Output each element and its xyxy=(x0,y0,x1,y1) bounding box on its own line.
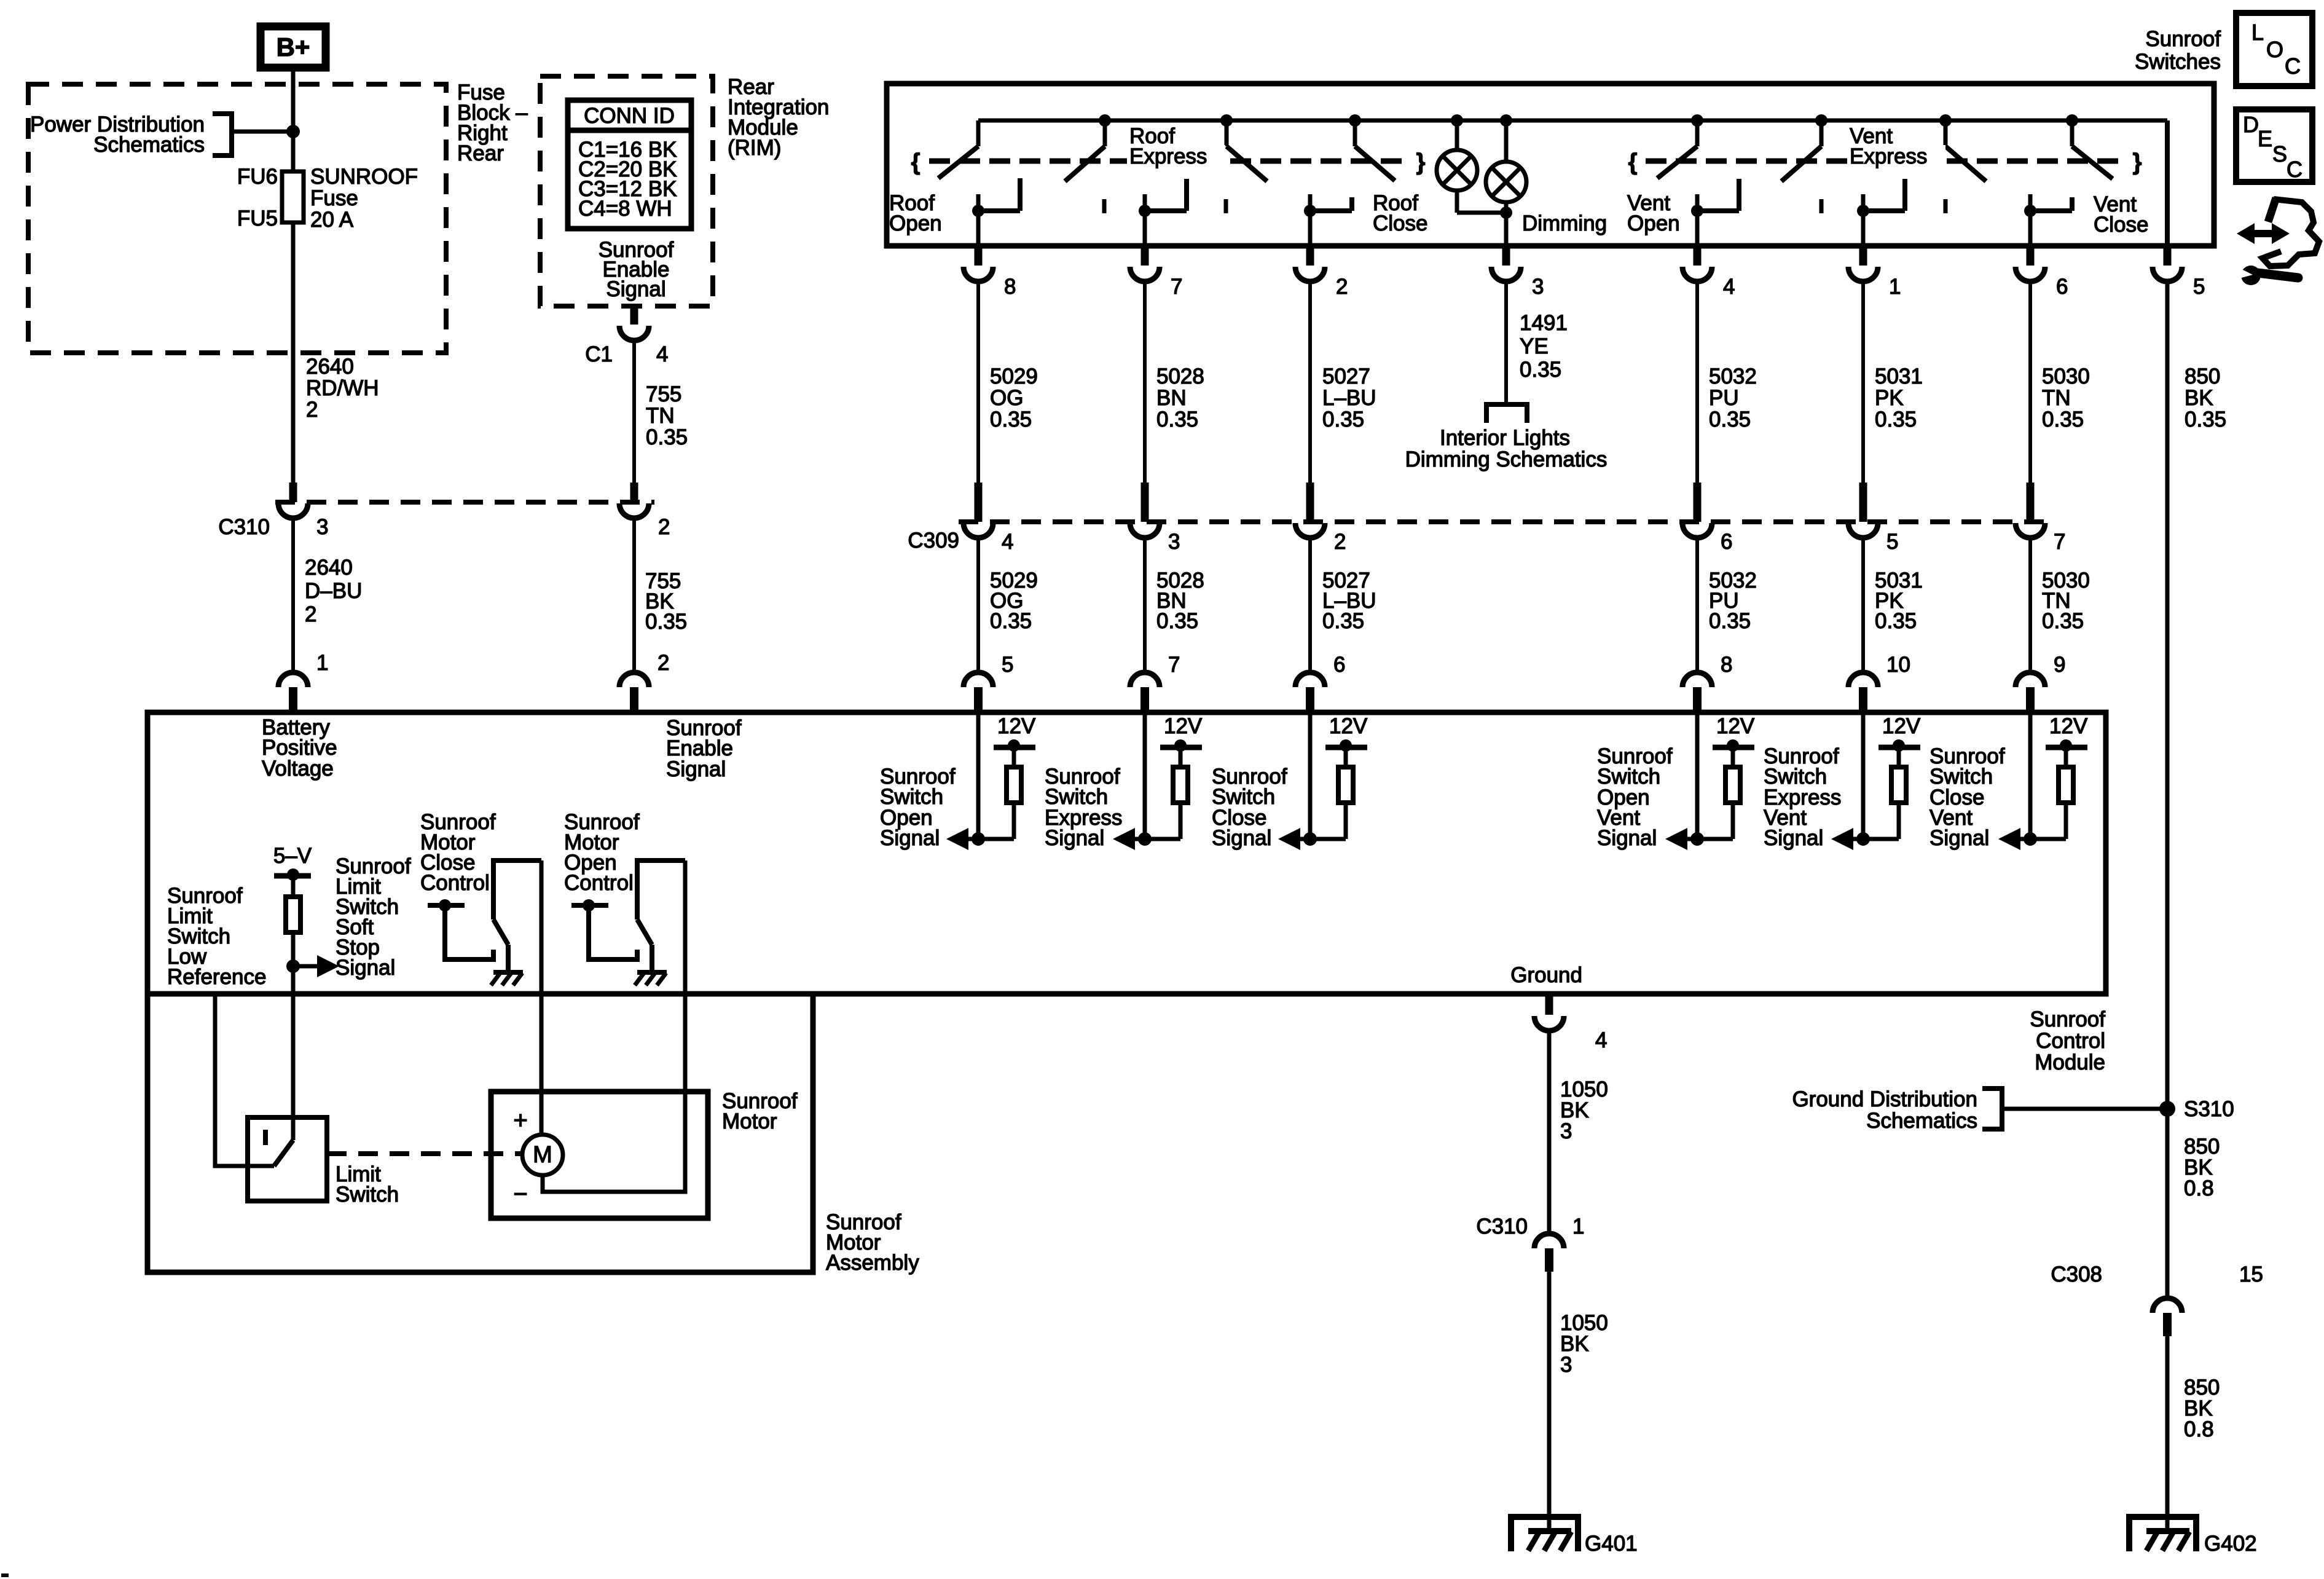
switch blade vent open xyxy=(1657,114,1703,178)
wire 5032 PU upper xyxy=(1697,282,1757,484)
sunroof motor close control driver xyxy=(420,810,541,991)
svg-text:Signal: Signal xyxy=(336,956,395,980)
switch blade roof express right xyxy=(1220,114,1267,181)
svg-text:4: 4 xyxy=(656,342,668,366)
12V pull-up and signal sunroof switch close vent xyxy=(1929,714,2088,850)
label Roof Express xyxy=(1127,124,1225,170)
label Limit Switch xyxy=(336,1162,399,1207)
svg-text:850: 850 xyxy=(2185,364,2220,388)
svg-text:6: 6 xyxy=(2056,275,2068,299)
module connector pin 8 xyxy=(1682,653,1732,711)
svg-text:{: { xyxy=(911,149,921,175)
svg-text:3: 3 xyxy=(316,515,328,539)
wire 755 BK 0.35 to module xyxy=(634,518,687,674)
wire 5027 L-BU lower xyxy=(1310,538,1376,674)
label Rear Integration Module (RIM) xyxy=(728,75,829,160)
svg-text:D–BU: D–BU xyxy=(305,579,362,603)
svg-text:0.35: 0.35 xyxy=(646,425,688,449)
svg-text:755: 755 xyxy=(646,382,681,406)
wire 2640 D-BU 2 to module xyxy=(293,518,362,674)
svg-text:7: 7 xyxy=(2054,530,2065,554)
svg-text:0.35: 0.35 xyxy=(1322,408,1364,431)
neutral position ticks xyxy=(1104,199,1945,213)
label C310 and pin numbers 3 / 2 xyxy=(218,515,670,539)
interior lights reference symbol xyxy=(1486,404,1527,423)
svg-text:5: 5 xyxy=(1002,653,1013,677)
switch blade vent express left xyxy=(1781,114,1827,181)
module connector pin 9 xyxy=(2016,653,2065,711)
sunroof motor open control driver xyxy=(564,810,685,991)
svg-text:C4=8 WH: C4=8 WH xyxy=(578,197,672,221)
switch connector pin 3 dimming xyxy=(1491,247,1544,299)
wire 5029 OG lower xyxy=(978,538,1038,674)
svg-text:Switches: Switches xyxy=(2135,50,2221,74)
CONN ID table xyxy=(568,100,691,229)
dimming lamp 2 xyxy=(1486,114,1526,213)
wire motor negative loop to open control xyxy=(543,996,685,1192)
wire 5029 OG upper xyxy=(978,282,1038,484)
module connector pin 4 ground xyxy=(1534,996,1607,1052)
contact and pin 1 vent express xyxy=(1857,179,1905,246)
svg-text:FU5: FU5 xyxy=(237,207,278,230)
power symbol B+ xyxy=(261,26,326,68)
svg-text:OG: OG xyxy=(990,386,1023,410)
svg-text:0.35: 0.35 xyxy=(1520,358,1561,382)
limit switch box xyxy=(248,1117,327,1201)
svg-text:O: O xyxy=(2266,37,2283,62)
12V pull-up and signal sunroof switch close xyxy=(1212,714,1368,850)
svg-text:5031: 5031 xyxy=(1875,364,1923,388)
module connector pin 6 xyxy=(1295,653,1345,711)
wire bracket to battery feed xyxy=(232,130,293,134)
switch connector pin 2 xyxy=(1295,247,1348,299)
contact and pin 2 roof close xyxy=(1304,194,1352,246)
svg-text:Sunroof: Sunroof xyxy=(2030,1007,2105,1031)
svg-text:S310: S310 xyxy=(2184,1097,2234,1121)
connector C309 terminal 6 xyxy=(1682,482,1712,538)
connector C308 terminal 15 xyxy=(2051,1262,2263,1336)
dimming lamp 1 xyxy=(1437,114,1477,213)
svg-text:Express: Express xyxy=(1129,144,1207,168)
12V pull-up and signal sunroof switch open vent xyxy=(1597,714,1755,850)
label Vent Open xyxy=(1627,191,1680,235)
wire sunroof enable 755 TN xyxy=(634,341,688,484)
svg-text:CONN ID: CONN ID xyxy=(584,104,675,128)
fuse block - right rear dashed box xyxy=(28,84,446,353)
svg-text:BK: BK xyxy=(2185,386,2213,410)
svg-text:Control: Control xyxy=(2036,1029,2105,1053)
svg-text:Signal: Signal xyxy=(880,826,940,850)
module connector pin 1 battery xyxy=(278,651,328,711)
svg-text:5–V: 5–V xyxy=(273,844,312,868)
svg-text:5: 5 xyxy=(2193,275,2205,299)
svg-text:2: 2 xyxy=(1334,530,1346,554)
svg-text:7: 7 xyxy=(1168,653,1180,677)
connector C309 terminal 7 xyxy=(2016,482,2045,538)
DESC legend box xyxy=(2236,109,2312,182)
mechanical link vent (dashed with braces) xyxy=(1628,149,2142,175)
ground distribution reference bracket xyxy=(1982,1089,2167,1129)
svg-text:2: 2 xyxy=(658,515,670,539)
svg-text:8: 8 xyxy=(1721,653,1732,677)
12V pull-up and signal sunroof switch open xyxy=(880,714,1036,850)
switch connector pin 5 xyxy=(2153,247,2205,299)
connector C310 terminal 3 (battery feed) xyxy=(278,482,308,518)
label Battery Positive Voltage xyxy=(262,715,337,781)
svg-text:5029: 5029 xyxy=(990,364,1038,388)
svg-text:3: 3 xyxy=(1532,275,1544,299)
connector C310 terminal 1 (ground) xyxy=(1476,1215,1584,1272)
switch connector pin 6 xyxy=(2016,247,2068,299)
svg-text:3: 3 xyxy=(1168,530,1180,554)
svg-text:}: } xyxy=(1416,149,1426,175)
svg-text:FU6: FU6 xyxy=(237,165,278,189)
label Ground xyxy=(1510,963,1582,987)
svg-text:Rear: Rear xyxy=(457,141,504,165)
svg-text:6: 6 xyxy=(1333,653,1345,677)
svg-text:0.35: 0.35 xyxy=(645,610,687,634)
svg-text:L: L xyxy=(2251,20,2264,45)
svg-text:2: 2 xyxy=(305,602,316,626)
svg-text:2640: 2640 xyxy=(306,355,354,379)
svg-text:Open: Open xyxy=(889,211,942,235)
svg-text:E: E xyxy=(2258,126,2272,151)
wire 850 BK 0.8 upper xyxy=(2167,1109,2220,1298)
svg-text:2: 2 xyxy=(1336,275,1348,299)
wire label 2640 RD/WH 2 xyxy=(306,355,379,422)
svg-text:0.35: 0.35 xyxy=(2042,609,2084,633)
12V pull-up and signal sunroof switch express xyxy=(1045,714,1203,850)
switch connector pin 7 xyxy=(1130,247,1182,299)
wire 5028 BN upper xyxy=(1145,282,1204,484)
switch blade roof close xyxy=(1349,114,1395,181)
svg-text:Motor: Motor xyxy=(722,1109,777,1133)
svg-text:TN: TN xyxy=(646,404,675,428)
svg-text:Switch: Switch xyxy=(336,1183,399,1207)
svg-text:Close: Close xyxy=(2094,213,2148,237)
svg-text:Assembly: Assembly xyxy=(826,1251,919,1275)
svg-text:0.35: 0.35 xyxy=(990,609,1032,633)
svg-text:C: C xyxy=(2287,157,2302,182)
label Fuse Block - Right Rear xyxy=(457,81,528,165)
svg-text:TN: TN xyxy=(2042,386,2071,410)
svg-text:Reference: Reference xyxy=(167,965,266,989)
switch connector pin 8 xyxy=(964,247,1016,299)
svg-text:0.35: 0.35 xyxy=(990,408,1032,431)
svg-text:15: 15 xyxy=(2239,1262,2263,1286)
svg-text:5030: 5030 xyxy=(2042,364,2090,388)
svg-text:0.35: 0.35 xyxy=(1709,609,1751,633)
svg-text:3: 3 xyxy=(1560,1119,1572,1143)
connector C310 terminal 2 (enable) xyxy=(619,482,649,518)
svg-text:Schematics: Schematics xyxy=(93,133,205,157)
switch blade vent close xyxy=(2066,114,2113,179)
label Vent Close xyxy=(2094,192,2148,237)
service icon car with arrows and wrench xyxy=(2237,198,2319,285)
corner speck xyxy=(1,1573,9,1577)
svg-text:Signal: Signal xyxy=(1045,826,1104,850)
module connector pin 5 xyxy=(964,653,1013,711)
svg-text:+: + xyxy=(513,1107,527,1134)
rear integration module dashed box xyxy=(540,76,713,306)
svg-text:−: − xyxy=(513,1181,527,1208)
svg-text:Ground: Ground xyxy=(1510,963,1582,987)
svg-text:1: 1 xyxy=(316,651,328,675)
switch supply bus xyxy=(978,120,2167,246)
limit switch blade xyxy=(274,1140,293,1166)
switch blade roof express left xyxy=(1065,114,1111,181)
svg-text:C310: C310 xyxy=(218,515,270,539)
motor polarity marks xyxy=(513,1107,527,1208)
svg-text:12V: 12V xyxy=(1329,714,1368,738)
svg-text:1: 1 xyxy=(1889,275,1901,299)
wire 5028 BN lower xyxy=(1145,538,1204,674)
wire 5030 TN lower xyxy=(2030,538,2090,674)
svg-text:5027: 5027 xyxy=(1322,364,1370,388)
svg-text:2: 2 xyxy=(306,398,318,422)
svg-text:Signal: Signal xyxy=(1597,826,1657,850)
wire limit switch low reference xyxy=(215,996,274,1166)
junction node on battery feed xyxy=(286,125,300,138)
svg-text:20 A: 20 A xyxy=(310,208,354,232)
svg-text:Ground Distribution: Ground Distribution xyxy=(1792,1087,1977,1111)
svg-text:Signal: Signal xyxy=(1212,826,1271,850)
svg-text:Close: Close xyxy=(1373,211,1427,235)
svg-text:12V: 12V xyxy=(1716,714,1755,738)
wire ground 1050 BK upper xyxy=(1549,1031,1608,1234)
svg-text:0.35: 0.35 xyxy=(1875,609,1917,633)
svg-text:Signal: Signal xyxy=(1929,826,1989,850)
contact and pin 7 roof express xyxy=(1139,179,1187,246)
LOC legend box xyxy=(2236,13,2312,86)
module connector pin 7 xyxy=(1130,653,1180,711)
fuse FU6/FU5 SUNROOF 20 A xyxy=(237,165,418,232)
wire 850 BK upper right xyxy=(2167,282,2226,1109)
label Sunroof Limit Switch Soft Stop Signal xyxy=(336,854,411,980)
ground G401 xyxy=(1511,1517,1638,1556)
splice S310 xyxy=(2159,1097,2234,1121)
svg-text:0.35: 0.35 xyxy=(1709,408,1751,431)
svg-text:C310: C310 xyxy=(1476,1215,1528,1238)
svg-text:M: M xyxy=(533,1142,552,1168)
connector C1 pin 4 xyxy=(585,306,668,366)
svg-text:4: 4 xyxy=(1595,1028,1607,1052)
svg-text:0.35: 0.35 xyxy=(1322,609,1364,633)
svg-text:Voltage: Voltage xyxy=(262,757,334,781)
svg-text:YE: YE xyxy=(1520,334,1549,358)
svg-text:12V: 12V xyxy=(997,714,1036,738)
svg-text:7: 7 xyxy=(1171,275,1182,299)
connector C309 terminal 4 xyxy=(964,482,993,538)
label Sunroof Control Module xyxy=(2030,1007,2105,1074)
wire 5031 PK lower xyxy=(1863,538,1923,674)
sunroof motor assembly box xyxy=(147,994,813,1272)
switch blade vent express right xyxy=(1939,114,1986,181)
sunroof motor box xyxy=(491,1092,708,1218)
switch connector pin 4 xyxy=(1682,247,1735,299)
wire 850 BK 0.8 lower xyxy=(2167,1336,2220,1517)
label Vent Express xyxy=(1847,124,1945,170)
svg-text:1491: 1491 xyxy=(1520,311,1568,335)
label C309 and row pin numbers xyxy=(908,529,2065,554)
svg-text:Control: Control xyxy=(564,871,634,895)
svg-text:0.8: 0.8 xyxy=(2184,1417,2214,1441)
ground G402 xyxy=(2129,1517,2257,1556)
label Sunroof Enable Signal (RIM output) xyxy=(599,238,674,301)
svg-text:G402: G402 xyxy=(2204,1532,2257,1556)
svg-text:0.35: 0.35 xyxy=(2185,408,2226,431)
svg-text:Express: Express xyxy=(1850,144,1927,168)
wire 5027 L-BU upper xyxy=(1310,282,1376,484)
wire 1491 YE dimming xyxy=(1506,282,1568,404)
svg-text:12V: 12V xyxy=(1164,714,1203,738)
svg-text:PU: PU xyxy=(1709,386,1739,410)
wire 5031 PK upper xyxy=(1863,282,1923,484)
connector C309 terminal 3 xyxy=(1130,482,1160,538)
svg-text:Dimming Schematics: Dimming Schematics xyxy=(1405,447,1608,471)
5-V reference and resistor sunroof limit switch xyxy=(273,844,339,991)
svg-text:1: 1 xyxy=(1572,1215,1584,1238)
wire 5032 PU lower xyxy=(1697,538,1757,674)
switch connector pin 1 xyxy=(1848,247,1901,299)
label Sunroof Switches xyxy=(2135,27,2221,74)
svg-text:0.35: 0.35 xyxy=(1156,609,1198,633)
sunroof switches box xyxy=(887,84,2214,246)
svg-text:Sunroof: Sunroof xyxy=(2145,27,2221,51)
svg-text:BN: BN xyxy=(1156,386,1187,410)
wire ground 1050 BK lower xyxy=(1549,1272,1608,1517)
svg-text:Open: Open xyxy=(1627,211,1680,235)
svg-text:SUNROOF: SUNROOF xyxy=(310,165,418,189)
contact and pin 8 roof open xyxy=(972,178,1020,246)
svg-text:5032: 5032 xyxy=(1709,364,1757,388)
connector C309 terminal 5 xyxy=(1848,482,1878,538)
module connector pin 10 xyxy=(1848,653,1910,711)
svg-text:12V: 12V xyxy=(2049,714,2088,738)
wire soft stop into limit switch xyxy=(291,996,296,1140)
connector C309 dashed body xyxy=(959,519,2049,524)
svg-text:Control: Control xyxy=(420,871,490,895)
svg-text:S: S xyxy=(2272,141,2287,167)
svg-text:C309: C309 xyxy=(908,529,959,553)
wire lamp1 to lamp2 junction xyxy=(1457,207,1512,246)
svg-text:D: D xyxy=(2243,112,2259,137)
label Ground Distribution Schematics xyxy=(1792,1087,1977,1133)
svg-text:2: 2 xyxy=(658,651,669,675)
svg-text:4: 4 xyxy=(1723,275,1735,299)
wire 5030 TN upper xyxy=(2030,282,2090,484)
label Sunroof Enable Signal (module input) xyxy=(666,716,742,781)
svg-text:5028: 5028 xyxy=(1156,364,1204,388)
connector C310 dashed body xyxy=(275,500,654,505)
switch blade roof open xyxy=(938,120,978,178)
wire battery feed from B+ through fuse to connector C310 xyxy=(291,68,296,484)
svg-text:0.35: 0.35 xyxy=(2042,408,2084,431)
label Sunroof Limit Switch Low Reference xyxy=(167,884,266,989)
svg-text:3: 3 xyxy=(1560,1353,1572,1377)
svg-text:Fuse: Fuse xyxy=(310,186,358,210)
power distribution reference bracket xyxy=(213,114,232,156)
label Sunroof Motor xyxy=(722,1089,798,1133)
svg-text:6: 6 xyxy=(1721,530,1732,554)
svg-text:B+: B+ xyxy=(277,33,310,61)
mechanical link roof (dashed with braces) xyxy=(911,149,1426,175)
svg-text:Signal: Signal xyxy=(1764,826,1823,850)
label Roof Open xyxy=(889,191,942,235)
svg-text:Module: Module xyxy=(2035,1050,2105,1074)
svg-text:0.8: 0.8 xyxy=(2184,1176,2214,1200)
svg-text:2640: 2640 xyxy=(305,556,353,580)
svg-text:Signal: Signal xyxy=(666,757,726,781)
mechanical link limit switch to motor (dashed) xyxy=(327,1151,522,1156)
connector C309 terminal 2 xyxy=(1295,482,1325,538)
contact and pin 6 vent close xyxy=(2024,194,2072,246)
label Sunroof Motor Assembly xyxy=(826,1210,919,1275)
12V pull-up and signal sunroof switch express vent xyxy=(1764,714,1921,850)
svg-text:RD/WH: RD/WH xyxy=(306,376,379,400)
svg-text:5: 5 xyxy=(1886,530,1898,554)
svg-text:12V: 12V xyxy=(1882,714,1921,738)
svg-text:C1: C1 xyxy=(585,342,613,366)
svg-text:C: C xyxy=(2285,53,2301,79)
label Interior Lights Dimming Schematics xyxy=(1405,426,1608,471)
svg-text:9: 9 xyxy=(2054,653,2065,677)
svg-text:C308: C308 xyxy=(2051,1262,2102,1286)
svg-text:}: } xyxy=(2133,149,2142,175)
svg-text:0.35: 0.35 xyxy=(1156,408,1198,431)
label Dimming xyxy=(1522,211,1607,235)
svg-text:4: 4 xyxy=(1002,530,1013,554)
svg-text:Signal: Signal xyxy=(606,277,665,301)
svg-text:PK: PK xyxy=(1875,386,1904,410)
label Power Distribution Schematics xyxy=(30,112,205,157)
label Roof Close xyxy=(1373,191,1427,235)
svg-text:G401: G401 xyxy=(1585,1532,1638,1556)
svg-text:8: 8 xyxy=(1004,275,1016,299)
svg-text:Dimming: Dimming xyxy=(1522,211,1607,235)
svg-text:{: { xyxy=(1628,149,1638,175)
svg-text:10: 10 xyxy=(1886,653,1910,677)
sunroof control module box xyxy=(147,712,2106,994)
svg-text:Schematics: Schematics xyxy=(1866,1109,1977,1133)
motor M xyxy=(522,996,563,1175)
contact and pin 4 vent open xyxy=(1691,179,1739,246)
module connector pin 2 enable xyxy=(619,651,669,711)
svg-text:Interior Lights: Interior Lights xyxy=(1440,426,1570,450)
svg-text:(RIM): (RIM) xyxy=(728,136,781,160)
svg-text:L–BU: L–BU xyxy=(1322,386,1376,410)
svg-text:0.35: 0.35 xyxy=(1875,408,1917,431)
